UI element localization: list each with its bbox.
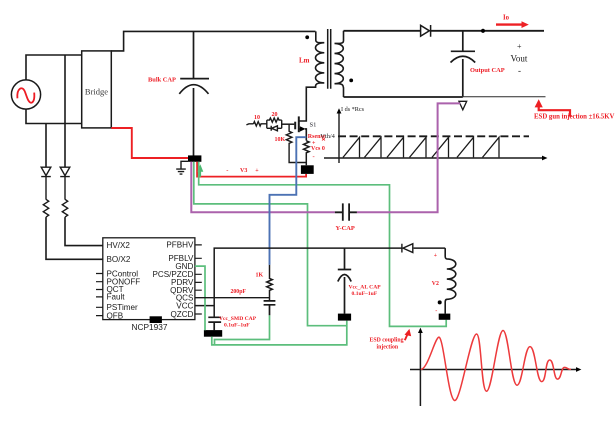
AC source <box>11 80 40 109</box>
node block SMD cap <box>204 330 222 337</box>
capacitor Y-CAP <box>335 203 357 220</box>
ESD coupling arrow <box>405 334 408 340</box>
resistor 10 <box>254 122 267 126</box>
svg-text:Bridge: Bridge <box>85 87 108 97</box>
green arrow annotation <box>199 171 201 177</box>
node block MOSFET source <box>301 165 314 174</box>
svg-text:10K: 10K <box>275 137 286 143</box>
svg-text:-: - <box>313 154 315 161</box>
sawtooth ramps <box>343 137 499 157</box>
svg-text:PFBHV: PFBHV <box>166 241 194 250</box>
wire output return thin <box>463 96 546 98</box>
wire blue current sense <box>270 137 307 265</box>
svg-text:1K: 1K <box>256 273 264 279</box>
winding V2 <box>445 248 456 314</box>
svg-text:0.1uF–1uF: 0.1uF–1uF <box>352 291 378 297</box>
resistor 1K <box>267 265 273 301</box>
wire gate <box>282 123 295 125</box>
node block AL cap <box>338 314 351 321</box>
diode V2 rectifier <box>402 244 413 253</box>
wire green1 to V2 return <box>199 162 447 327</box>
capacitor 200pF <box>264 301 276 315</box>
svg-text:+: + <box>434 253 437 259</box>
resistor 10K <box>286 124 306 162</box>
diode D-BO <box>41 167 51 199</box>
svg-text:QZCD: QZCD <box>170 310 193 319</box>
resistor R-HV <box>62 199 67 217</box>
wire bridge out red <box>111 128 188 158</box>
svg-text:ESD coupling: ESD coupling <box>370 338 404 344</box>
ESD gun injection arrow <box>539 104 570 117</box>
resistor R-BO <box>43 199 48 217</box>
diode output rectifier <box>421 25 431 37</box>
node output dot <box>481 29 485 33</box>
wire red V3 sense <box>197 162 306 177</box>
svg-text:Y-CAP: Y-CAP <box>336 225 355 232</box>
svg-text:Fault: Fault <box>107 293 126 302</box>
svg-text:+: + <box>255 168 259 174</box>
svg-text:0.1uF–1uF: 0.1uF–1uF <box>224 322 250 328</box>
sawtooth plot axes <box>338 113 340 163</box>
ground <box>176 161 188 174</box>
svg-text:injection: injection <box>377 345 399 351</box>
svg-text:Lm: Lm <box>299 57 310 65</box>
capacitor Vcc_SMD CAP <box>208 317 221 330</box>
svg-text:Vcs 0: Vcs 0 <box>311 146 325 152</box>
svg-text:Io: Io <box>503 15 510 22</box>
wire green bottom bus <box>212 321 347 345</box>
svg-text:-: - <box>435 307 437 314</box>
wire diode to output <box>431 30 544 32</box>
resistor Rsense <box>303 141 309 166</box>
svg-text:ESD gun injection ±16.5KV: ESD gun injection ±16.5KV <box>534 114 614 121</box>
svg-text:NCP1937: NCP1937 <box>132 322 168 332</box>
node block V2 <box>439 314 451 320</box>
bridge rectifier <box>82 51 112 128</box>
svg-text:-: - <box>518 66 521 76</box>
transistor Q1 S1 mosfet <box>294 122 296 130</box>
U1 pin stubs <box>96 245 202 316</box>
node block primary GND <box>188 155 201 161</box>
wire AC top to bridge <box>26 55 82 80</box>
capacitor Vcc_AL CAP <box>338 248 351 314</box>
svg-text:-: - <box>226 167 228 174</box>
svg-text:Output CAP: Output CAP <box>470 67 505 74</box>
wire to BO/X2 pin <box>46 217 103 259</box>
wire HV/X2 tap <box>64 55 66 167</box>
svg-text:Vout: Vout <box>511 54 528 64</box>
wire QCS to RC <box>195 297 270 299</box>
wire green2 to AL cap block <box>194 162 347 326</box>
svg-text:V2: V2 <box>432 281 439 287</box>
transformer secondary <box>335 31 344 97</box>
svg-text:I ds *Rcs: I ds *Rcs <box>341 106 365 113</box>
winding V2 dot <box>438 300 442 304</box>
oscillation axes <box>419 332 421 406</box>
wire green 200p return <box>215 315 270 344</box>
transformer secondary dot <box>349 79 353 83</box>
resistor 20 with parallel diode <box>267 118 282 128</box>
diode D-HV <box>60 167 70 199</box>
svg-text:10: 10 <box>254 115 260 121</box>
U1 pin labels <box>107 241 194 321</box>
wire bridge top to bulk rail <box>111 31 315 51</box>
IC package mark <box>150 316 162 323</box>
wire secondary bottom rail <box>344 96 463 98</box>
wire to HV/X2 pin <box>65 217 103 246</box>
wire VCC net <box>195 248 445 317</box>
svg-text:V3: V3 <box>240 168 247 174</box>
svg-text:+: + <box>517 42 522 51</box>
svg-text:BO/X2: BO/X2 <box>107 255 131 264</box>
wire purple Y-CAP net <box>191 103 460 212</box>
wire AC bottom to bridge <box>26 109 82 123</box>
svg-text:QFB: QFB <box>107 311 124 320</box>
capacitor Output CAP <box>451 31 476 97</box>
resistor 10 lead <box>246 124 253 125</box>
dashed threshold line <box>338 135 529 137</box>
wire secondary top rail <box>344 30 421 32</box>
transformer core <box>328 29 331 89</box>
svg-text:200pF: 200pF <box>231 289 247 295</box>
wire green GND pin <box>195 266 205 330</box>
node ESD injection point triangle <box>459 101 467 110</box>
svg-text:S1: S1 <box>310 122 317 129</box>
svg-text:Bulk CAP: Bulk CAP <box>148 76 176 83</box>
ringing waveform <box>421 331 571 401</box>
wire BO/X2 tap <box>45 124 47 168</box>
op-amp U1 NCP1937 box <box>103 238 195 320</box>
svg-text:Vcc_AL CAP: Vcc_AL CAP <box>349 284 382 290</box>
svg-text:Vcc_SMD CAP: Vcc_SMD CAP <box>219 316 257 322</box>
transformer primary Lm <box>306 31 324 100</box>
transformer primary dot <box>305 35 309 39</box>
svg-text:HV/X2: HV/X2 <box>107 241 131 250</box>
capacitor Bulk CAP <box>179 31 209 155</box>
